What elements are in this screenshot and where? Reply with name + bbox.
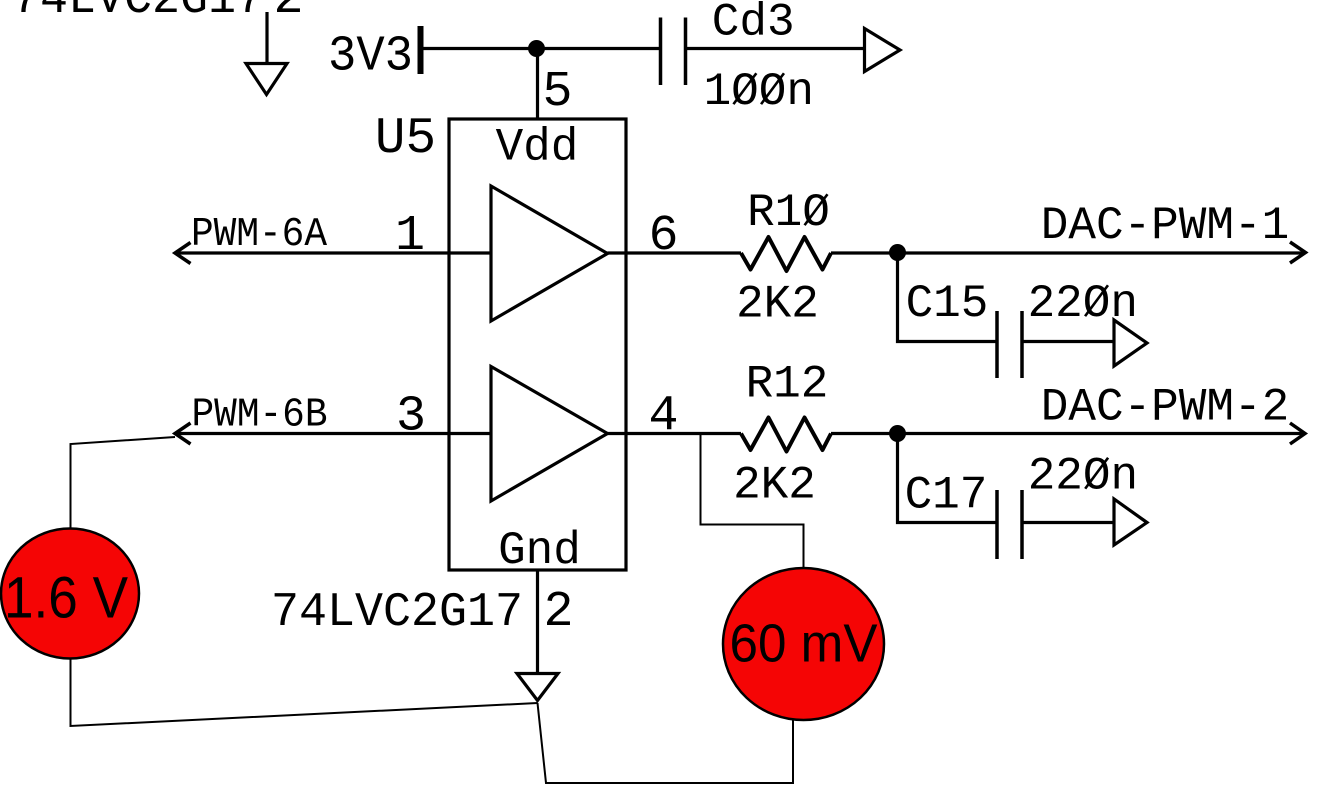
svg-text:DAC-PWM-1: DAC-PWM-1 (1041, 200, 1289, 252)
svg-text:74LVC2G17: 74LVC2G17 (271, 586, 523, 640)
svg-text:Gnd: Gnd (498, 525, 581, 577)
svg-text:R12: R12 (746, 359, 829, 411)
svg-text:Cd3: Cd3 (712, 0, 795, 49)
svg-text:22Øn: 22Øn (1028, 278, 1138, 330)
svg-text:2K2: 2K2 (736, 279, 819, 331)
svg-text:Vdd: Vdd (496, 122, 579, 174)
svg-text:R1Ø: R1Ø (747, 187, 830, 239)
svg-text:6: 6 (648, 208, 678, 265)
svg-text:3V3: 3V3 (328, 29, 413, 86)
svg-text:U5: U5 (375, 111, 436, 168)
svg-text:DAC-PWM-2: DAC-PWM-2 (1041, 382, 1289, 434)
svg-text:PWM-6A: PWM-6A (191, 212, 327, 258)
svg-text:C17: C17 (905, 470, 988, 522)
svg-text:1ØØn: 1ØØn (704, 66, 814, 118)
svg-text:1: 1 (395, 208, 425, 265)
svg-text:C15: C15 (906, 278, 989, 330)
svg-text:2K2: 2K2 (733, 460, 816, 512)
svg-text:60 mV: 60 mV (730, 614, 878, 674)
svg-text:2: 2 (273, 0, 303, 28)
svg-text:4: 4 (648, 389, 678, 446)
svg-text:2: 2 (543, 584, 573, 641)
svg-text:74LVC2G17: 74LVC2G17 (12, 0, 264, 27)
svg-text:1.6 V: 1.6 V (4, 566, 128, 631)
svg-text:22Øn: 22Øn (1028, 451, 1138, 503)
svg-text:5: 5 (542, 64, 572, 121)
svg-text:PWM-6B: PWM-6B (192, 392, 328, 438)
svg-text:3: 3 (396, 389, 426, 446)
